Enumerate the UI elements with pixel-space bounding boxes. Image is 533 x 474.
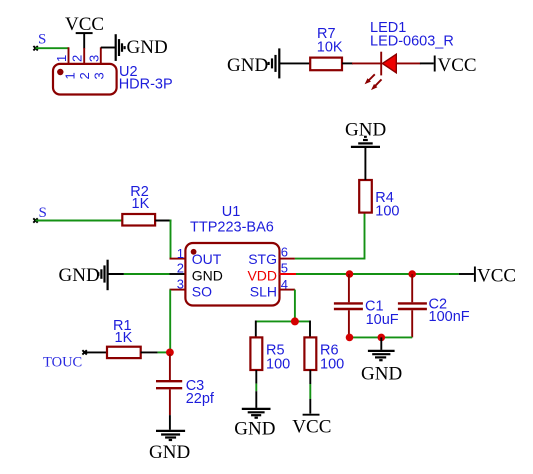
junction node C1 bottom bbox=[346, 334, 354, 342]
wire R4 to GND bbox=[364, 148, 366, 180]
U1 pin 6 stub bbox=[280, 258, 295, 260]
svg-text:VDD: VDD bbox=[247, 268, 277, 284]
U1 pin 3 stub bbox=[170, 290, 186, 353]
power GND (below C1/C2, earth) bbox=[361, 337, 402, 384]
LED D1 cathode bar bbox=[380, 52, 382, 76]
U1 pin1 dot marker bbox=[191, 249, 197, 255]
U2 pin 3 wire bbox=[101, 47, 116, 64]
power GND (below R5, earth) bbox=[234, 409, 275, 440]
junction node R5/R6 bbox=[291, 317, 299, 325]
wire LED1 to VCC bbox=[396, 62, 434, 64]
power VCC (U2) bbox=[65, 14, 104, 49]
svg-text:LED-0603_R: LED-0603_R bbox=[370, 34, 454, 50]
wire S to R2 bbox=[33, 218, 122, 222]
wire down to R5 bbox=[255, 321, 257, 338]
svg-text:GND: GND bbox=[227, 55, 268, 76]
wire S to U2 pin1 bbox=[33, 46, 68, 50]
svg-text:100: 100 bbox=[375, 203, 399, 219]
junction node GND mid bbox=[378, 334, 386, 342]
IC U1 body bbox=[185, 243, 279, 306]
svg-text:10uF: 10uF bbox=[366, 312, 399, 328]
svg-text:2: 2 bbox=[177, 260, 184, 275]
junction node R1/C3 bbox=[166, 349, 174, 357]
svg-text:SLH: SLH bbox=[250, 284, 277, 300]
svg-text:OUT: OUT bbox=[192, 251, 222, 267]
svg-text:S: S bbox=[38, 32, 46, 48]
U1 pin 4 stub bbox=[280, 289, 295, 291]
power GND (R7 row, sideways) bbox=[227, 48, 279, 78]
svg-text:U1: U1 bbox=[222, 204, 241, 220]
wire R7 to LED1 bbox=[342, 62, 381, 64]
svg-text:1: 1 bbox=[177, 246, 184, 261]
svg-text:GND: GND bbox=[192, 268, 223, 284]
LED D1 triangle bbox=[382, 54, 396, 73]
svg-text:GND: GND bbox=[127, 37, 168, 58]
svg-text:GND: GND bbox=[361, 364, 402, 385]
wire GND to R7 bbox=[279, 62, 310, 64]
wire R1 to node bbox=[141, 351, 168, 353]
svg-text:3: 3 bbox=[86, 55, 101, 62]
svg-text:VCC: VCC bbox=[65, 14, 104, 35]
wire C1 to C2 bottom bbox=[350, 336, 413, 338]
power GND (above R4, inverted earth) bbox=[345, 119, 386, 147]
wire TOUC to R1 bbox=[82, 350, 107, 354]
wire R5 to GND bbox=[255, 370, 257, 408]
connector U2 body bbox=[53, 64, 117, 95]
resistor R1 bbox=[107, 347, 141, 358]
svg-text:HDR-3P: HDR-3P bbox=[119, 77, 173, 93]
svg-text:SO: SO bbox=[192, 284, 212, 300]
svg-text:2: 2 bbox=[70, 55, 85, 62]
svg-text:STG: STG bbox=[248, 251, 277, 267]
svg-text:GND: GND bbox=[59, 265, 100, 286]
svg-text:10K: 10K bbox=[317, 39, 343, 55]
U1 pin 2 stub bbox=[170, 273, 186, 275]
svg-text:100: 100 bbox=[266, 356, 290, 372]
wire R5 to R6 top bbox=[256, 320, 310, 322]
svg-text:VCC: VCC bbox=[477, 265, 516, 286]
svg-text:TTP223-BA6: TTP223-BA6 bbox=[190, 219, 274, 235]
svg-text:GND: GND bbox=[149, 442, 190, 463]
resistor R2 bbox=[122, 214, 155, 226]
power GND (below C3, earth) bbox=[149, 431, 190, 463]
svg-text:2: 2 bbox=[77, 72, 92, 79]
U1 pin 5 stub bbox=[280, 273, 297, 275]
capacitor C2 bbox=[398, 274, 427, 337]
LED light arrow 1 bbox=[365, 74, 375, 84]
svg-text:1: 1 bbox=[63, 72, 78, 79]
wire pin5 to VCC bbox=[296, 273, 474, 275]
svg-text:GND: GND bbox=[234, 418, 275, 439]
junction node C1/VCC bbox=[346, 270, 354, 278]
ground GND (U2, sideways) bbox=[116, 34, 168, 61]
svg-text:100nF: 100nF bbox=[429, 309, 470, 325]
U2 pin 1 wire bbox=[68, 47, 70, 64]
resistor R4 bbox=[359, 180, 372, 213]
svg-text:1: 1 bbox=[54, 55, 69, 62]
svg-text:1K: 1K bbox=[132, 196, 150, 212]
power VCC (R7 row) bbox=[435, 55, 477, 76]
resistor R7 bbox=[310, 58, 342, 71]
power GND (mid-left, sideways) bbox=[59, 260, 108, 291]
svg-text:100: 100 bbox=[320, 356, 344, 372]
svg-text:3: 3 bbox=[177, 276, 184, 291]
wire pin6 to R4 bbox=[295, 213, 365, 260]
svg-text:S: S bbox=[39, 205, 47, 221]
power VCC (below R6) bbox=[292, 415, 331, 438]
svg-text:6: 6 bbox=[281, 244, 288, 259]
resistor R6 bbox=[304, 337, 316, 370]
wire pin4 down bbox=[294, 290, 296, 322]
svg-text:TOUC: TOUC bbox=[43, 355, 82, 371]
LED light arrow 2 bbox=[371, 79, 382, 90]
U1 pin 1 stub bbox=[170, 258, 186, 260]
wire GND to U1 pin2 bbox=[108, 273, 170, 275]
svg-text:3: 3 bbox=[92, 72, 107, 79]
capacitor C1 bbox=[334, 274, 363, 337]
svg-text:VCC: VCC bbox=[292, 416, 331, 437]
U2 pin1 dot marker bbox=[57, 69, 63, 75]
capacitor C3 bbox=[156, 354, 182, 430]
wire R6 to VCC bbox=[309, 370, 311, 414]
resistor R5 bbox=[250, 337, 262, 370]
svg-text:VCC: VCC bbox=[438, 55, 477, 76]
junction node C2/VCC bbox=[408, 270, 416, 278]
svg-text:22pf: 22pf bbox=[186, 391, 215, 407]
U2 pin 2 wire bbox=[83, 48, 85, 64]
wire down to R6 bbox=[309, 321, 311, 338]
power VCC (right) bbox=[475, 265, 516, 286]
wire R2 to U1 pin1 bbox=[155, 220, 171, 259]
svg-text:1K: 1K bbox=[115, 330, 133, 346]
